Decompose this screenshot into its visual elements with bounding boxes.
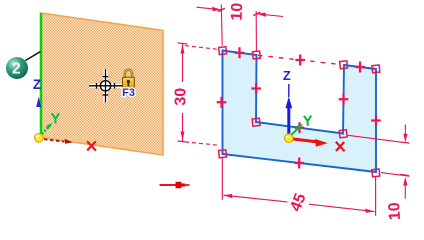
edge midpoint marks (pink plus) <box>217 47 381 168</box>
svg-text:10: 10 <box>386 202 404 221</box>
sketch X axis (red) <box>291 139 345 152</box>
base Y axis (left face, dashed green) <box>42 113 59 134</box>
dimension 10 (top) <box>197 5 284 52</box>
dimension 30 (left) <box>178 43 219 145</box>
base Z axis arrowhead (peeking over green edge) <box>36 97 41 108</box>
svg-text:2: 2 <box>12 61 21 78</box>
svg-text:30: 30 <box>173 88 190 106</box>
origin point (left face, yellow ball) <box>35 134 44 143</box>
sketch profile edges <box>223 51 377 173</box>
construction line (dashed, open side of profile) <box>258 55 342 64</box>
svg-text:F3: F3 <box>122 87 135 99</box>
crosshair cursor <box>89 69 122 102</box>
svg-text:10: 10 <box>229 2 247 20</box>
direction step arrow (red) <box>160 182 190 188</box>
base X axis (left face, dashed dark red) <box>44 139 96 151</box>
dimension 10 (right) <box>348 125 410 199</box>
sketch Z axis (blue) <box>283 68 292 138</box>
selected planar face (hatched orange parallelogram) <box>41 13 163 155</box>
sketch profile fill (U channel) <box>223 51 377 173</box>
svg-text:Z: Z <box>283 68 291 83</box>
sketch origin (yellow ball) <box>285 134 294 143</box>
balloon callout 2 <box>6 52 41 80</box>
dimension 45 (bottom) <box>222 158 375 216</box>
vertex handles (pink squares) <box>219 47 380 177</box>
highlighted edge (green, selected) <box>40 13 43 138</box>
lock icon (plane lock) <box>123 70 135 89</box>
svg-text:Z: Z <box>33 77 41 92</box>
sketch Y axis (green) <box>290 116 312 137</box>
